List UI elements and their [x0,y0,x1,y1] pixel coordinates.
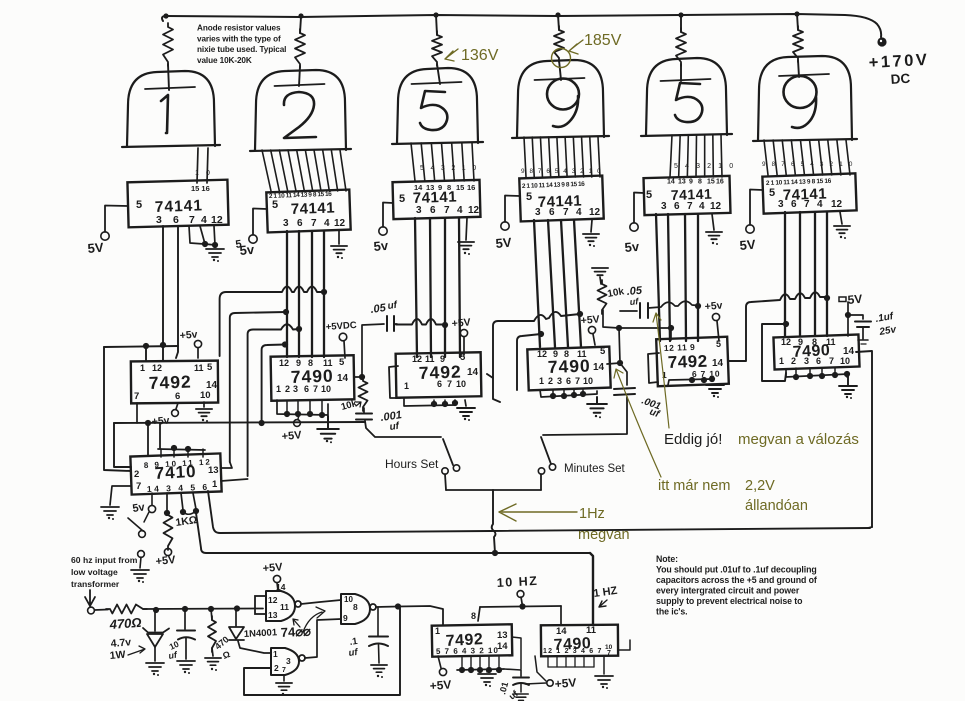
svg-text:11: 11 [280,602,289,612]
wire V3 cathode pins [411,143,415,181]
svg-text:supply to prevent electrical n: supply to prevent electrical noise to [656,596,803,606]
svg-text:4: 4 [201,214,207,226]
svg-text:megvan: megvan [578,527,630,543]
switch S2 Minutes Set [543,397,627,435]
svg-text:Minutes Set: Minutes Set [564,463,626,475]
svg-text:every intergrated circuit and: every intergrated circuit and power [656,586,800,596]
counter C3 7492 [396,352,482,397]
node +5VDC C2 [344,341,345,358]
svg-text:14: 14 [593,362,605,373]
ground C6 bottom [786,370,848,377]
resistor 1K ohm [166,493,168,512]
node +5V C4 [593,334,595,345]
svg-text:5: 5 [207,362,213,373]
wire nest C1-C2 step 4 [262,345,285,424]
svg-text:+5V: +5V [451,316,471,330]
wire C5 left bracket [648,353,659,383]
svg-text:8: 8 [471,611,476,621]
node 5V C6 [839,297,846,302]
svg-text:1: 1 [404,381,409,391]
capacitor .001uf minutes [620,363,627,385]
svg-text:1Hz: 1Hz [579,506,605,522]
wire 10hz bus [480,606,561,607]
wire C7 C8 bottom stubs [547,657,549,667]
svg-text:5: 5 [646,189,652,201]
wire to C5 pin1 [619,328,671,340]
svg-text:14: 14 [712,358,724,369]
svg-text:2: 2 [791,356,796,366]
wire 7410 top bus [158,449,205,450]
svg-text:3: 3 [416,205,422,216]
wire C1 pin7 stub [136,403,138,423]
svg-text:1: 1 [212,479,218,490]
wire G3 output [376,606,398,609]
svg-text:6: 6 [566,376,571,386]
svg-text:Note:: Note: [656,554,678,564]
svg-text:+5v: +5v [179,328,198,342]
wire nest C5-C6 hop [728,292,827,361]
svg-text:7: 7 [444,205,450,216]
svg-text:13: 13 [268,610,278,620]
wire nest C1-C2 step 3 [248,324,299,476]
svg-text:6: 6 [791,199,797,210]
counter C7 7492 [432,624,513,656]
counter C8 7490 [541,625,618,657]
svg-text:6: 6 [549,207,555,218]
terminal +170V DC [877,37,886,46]
svg-text:3: 3 [535,207,541,218]
wire G2 output to G3 [305,619,341,658]
wire C4 nest bottom [493,378,500,402]
svg-text:5V: 5V [495,235,512,251]
wire 10k down to junction [603,310,619,328]
svg-text:6: 6 [437,379,442,389]
resistor R2 anode [295,29,305,68]
svg-text:5V: 5V [739,237,756,253]
wire bundle U5 to C5 [656,214,660,341]
svg-text:15: 15 [456,183,464,192]
svg-text:3: 3 [778,199,784,210]
svg-text:12: 12 [268,595,278,605]
svg-text:8: 8 [353,602,358,612]
counter U7 7410 [130,453,221,494]
svg-text:14: 14 [467,367,479,378]
svg-text:15 16: 15 16 [191,184,210,193]
capacitor .01uf bottom [504,669,521,676]
svg-text:12: 12 [468,205,480,216]
svg-text:9: 9 [798,337,803,347]
svg-text:5v: 5v [373,238,389,254]
capacitor .1uf output [377,607,379,636]
diode D1 zener 4.7v [154,610,156,631]
svg-text:2: 2 [134,469,139,480]
wire 1Hz to 7490 pin11 [590,553,593,625]
svg-text:7: 7 [563,207,569,218]
wire C7 bottom bus [457,669,504,670]
node +5V C8 [547,680,553,686]
svg-text:12: 12 [211,214,223,226]
svg-text:8: 8 [698,179,702,186]
svg-text:13: 13 [678,179,686,186]
wire C2 pin14 up to cap [362,324,384,377]
svg-text:10 HZ: 10 HZ [496,574,538,590]
svg-text:8: 8 [447,183,451,192]
svg-text:16: 16 [716,179,724,186]
svg-text:7: 7 [607,650,611,657]
wire horizontal y423 [114,422,365,423]
svg-text:3: 3 [156,214,162,226]
gate G3 7400 nand [341,594,370,624]
wire 1Hz drop [492,490,496,553]
svg-text:állandóan: állandóan [745,498,808,514]
svg-text:+5V: +5V [580,313,600,327]
svg-text:7: 7 [829,356,834,366]
wire bundle U2 to C2 [286,231,288,357]
svg-text:3: 3 [286,656,291,666]
driver U5 74141 [644,176,731,215]
digit 5 in V3 [420,91,447,130]
svg-text:10: 10 [840,356,850,366]
nixie tube V5 [646,58,727,135]
svg-text:12 11 9: 12 11 9 [664,342,696,353]
svg-text:7: 7 [575,376,580,386]
wire nest C1-C2 step 1 [220,287,324,357]
node 5V supply for U3 [383,203,393,228]
svg-text:7492: 7492 [148,372,192,393]
svg-text:9: 9 [438,183,442,192]
gate G2 7400 nand [271,648,299,675]
capacitor .05uf second [639,303,641,318]
wire R6 to tube V6 [798,60,799,77]
node C4 pin14 junction [607,363,620,364]
svg-text:1: 1 [273,649,278,659]
svg-text:0: 0 [206,170,210,177]
svg-text:5: 5 [399,193,405,205]
svg-text:3: 3 [283,218,289,229]
svg-text:1: 1 [539,376,544,386]
wire 7410 bus stub up [159,423,161,448]
driver U4 74141 [519,176,603,222]
counter C1 7492 [131,361,218,404]
wire V5 cathode pins [670,135,672,177]
ground U4 [591,220,592,232]
resistor R6 anode [793,26,803,62]
svg-text:capacitors across the +5 and g: capacitors across the +5 and ground of [656,575,817,585]
svg-text:7: 7 [311,218,317,229]
node +5V C3 [463,337,465,355]
ground U1 [189,226,204,244]
wire feedback loop [244,608,400,695]
svg-text:+5v: +5v [704,299,723,313]
wire nest C1-C2 step 2 [230,312,286,462]
svg-text:5V: 5V [87,240,104,256]
svg-text:7: 7 [687,201,693,212]
svg-text:3: 3 [293,384,298,394]
svg-text:4: 4 [699,201,705,212]
node input terminal [88,607,95,614]
svg-text:13: 13 [208,465,219,476]
svg-text:You should put .01uf to .1uf d: You should put .01uf to .1uf decoupling [656,565,817,575]
svg-text:11: 11 [323,358,333,368]
svg-text:11: 11 [194,363,204,373]
svg-text:5 7 6 4 3 2 10: 5 7 6 4 3 2 10 [436,646,499,656]
digit 9 in V6 [784,76,817,108]
svg-text:5: 5 [716,339,721,349]
svg-text:9 8 7 6 5 4 3 2 1 0: 9 8 7 6 5 4 3 2 1 0 [762,161,855,168]
svg-text:nixie tube used. Typical: nixie tube used. Typical [197,45,286,54]
svg-text:+5VDC: +5VDC [325,320,357,333]
digit 9 in V4 [547,79,579,110]
wire C1 top rail [104,346,178,347]
svg-text:1: 1 [435,626,440,636]
svg-text:6: 6 [430,205,436,216]
svg-text:11: 11 [586,625,597,636]
wire V6 cathode pins [764,140,768,175]
svg-text:470Ω: 470Ω [108,615,142,632]
wire main 60hz bus [143,608,263,611]
svg-text:4: 4 [324,218,330,229]
svg-text:+5V: +5V [262,561,284,575]
ground C4 bottom [540,390,597,397]
counter C6 7490 [773,335,859,370]
svg-text:11: 11 [577,349,587,359]
svg-text:5 4 3 2 1 0: 5 4 3 2 1 0 [674,163,736,170]
svg-text:6: 6 [674,201,680,212]
node +5V C1 [197,348,199,358]
svg-text:12: 12 [412,354,422,364]
wire G2 input1 [238,641,271,653]
svg-text:9: 9 [553,349,558,359]
svg-text:7: 7 [804,199,810,210]
svg-text:+5V: +5V [281,429,303,443]
wire R3 to tube V3 [437,64,440,84]
svg-text:+5V: +5V [429,678,452,693]
ground U5 [712,214,714,230]
wire bundle U3 to C3 [415,218,417,357]
svg-text:3: 3 [804,356,809,366]
node +5V C7 [438,656,441,668]
svg-text:5V: 5V [847,292,863,307]
svg-text:the ic's.: the ic's. [656,607,688,617]
digit 2 in V2 [284,92,316,138]
svg-text:megvan a válozás: megvan a válozás [738,431,859,448]
wire G1 out to G3 in [301,600,341,604]
node 5V supply for U6 [750,190,763,226]
wire R2 to tube V2 [299,66,300,86]
resistor R1 anode [163,23,173,66]
wire line B lower [196,513,590,553]
switch S3 to ground [144,512,149,522]
svg-text:9: 9 [296,358,301,368]
svg-text:value 10K-20K: value 10K-20K [197,56,252,65]
resistor R3 anode [432,31,442,66]
svg-text:12: 12 [537,349,547,359]
svg-text:12: 12 [781,337,791,347]
capacitor .001uf hours [356,413,372,415]
wire C6 pin14 to right bus [856,351,872,527]
svg-text:136V: 136V [461,47,499,64]
resistor R4 anode [554,26,564,62]
svg-text:2: 2 [274,663,279,673]
wire bundle U4 to C4 [534,220,540,347]
svg-text:4: 4 [576,207,582,218]
svg-text:3: 3 [661,201,667,212]
svg-text:6: 6 [816,356,821,366]
svg-text:7: 7 [189,214,195,226]
svg-text:5 4 3 2 1 0: 5 4 3 2 1 0 [420,165,478,172]
svg-text:1N4001: 1N4001 [244,627,279,640]
svg-text:8: 8 [564,349,569,359]
svg-text:Anode resistor values: Anode resistor values [197,24,281,33]
wire V4 cathode pins [524,137,526,177]
ground U6 [840,212,842,224]
svg-text:11: 11 [826,337,836,347]
node rail junction dots [163,13,168,18]
svg-text:12: 12 [152,363,162,373]
svg-text:+5V: +5V [554,676,577,691]
svg-text:10: 10 [321,384,331,394]
svg-text:13: 13 [497,630,508,641]
ground U3 [466,218,467,240]
svg-text:9: 9 [689,179,693,186]
svg-text:5: 5 [136,199,142,211]
svg-text:1: 1 [140,363,145,373]
wire bundle U6 to C6 [784,212,786,336]
arrow Eddig jo to cap [653,313,669,428]
node 5V supply for U4 [505,196,520,223]
svg-text:10: 10 [456,379,466,389]
svg-text:5: 5 [460,352,466,363]
svg-text:2,2V: 2,2V [745,478,775,494]
svg-text:+170V: +170V [868,51,930,72]
wire switch common bus [446,489,541,491]
svg-text:185V: 185V [584,32,622,49]
svg-text:74141: 74141 [291,199,336,218]
svg-text:14: 14 [414,183,423,192]
ground C7 [486,670,488,672]
svg-text:transformer: transformer [71,579,120,589]
node 5V supply for U2 [253,209,267,236]
svg-text:14: 14 [556,626,567,637]
svg-text:13: 13 [426,183,434,192]
resistor 470 ohm input [95,609,109,612]
svg-text:Hours Set: Hours Set [385,457,439,471]
driver U1 74141 [127,180,228,228]
ground C3 bottom [404,399,455,406]
svg-text:7: 7 [282,667,286,674]
capacitor 10uf [184,609,186,629]
svg-text:16: 16 [467,183,475,192]
svg-text:4: 4 [457,205,463,216]
wire bundle U1 to C1 [162,226,164,343]
svg-text:14: 14 [667,179,675,186]
svg-text:.05: .05 [370,302,388,316]
wire R1 to tube V1 [168,64,169,90]
svg-text:6: 6 [173,214,179,226]
capacitor .05uf first [386,316,388,331]
svg-text:5: 5 [339,357,345,368]
svg-text:10: 10 [583,376,593,386]
wire +170V anode supply rail [162,14,881,37]
svg-text:5v: 5v [624,239,640,255]
driver U2 74141 [266,190,350,233]
resistor R5 anode [676,28,686,66]
svg-text:12: 12 [831,199,843,210]
svg-text:11: 11 [425,354,435,364]
svg-text:12: 12 [334,218,346,229]
wire nest C3-C4 step 2 [517,334,541,390]
svg-text:4.7v: 4.7v [110,636,132,650]
wire nest C5-C6 step 2 [762,324,786,381]
svg-text:7: 7 [447,379,452,389]
arrow 60hz input [85,590,95,606]
node C1 pin6 +5v [176,403,178,409]
svg-text:1: 1 [779,356,784,366]
wire C8 right stub [618,640,630,650]
nixie tube V6 [758,56,852,140]
svg-text:4: 4 [817,199,823,210]
wire 7410 right pin1 [221,479,248,481]
wire C2 pin +5v bottom [298,415,299,419]
svg-text:DC: DC [890,71,911,87]
svg-text:60 hz input from: 60 hz input from [71,555,138,565]
ground U2 [338,231,340,244]
nixie tube V3 [397,68,478,143]
wire hop C2cap to C3 [396,319,445,325]
ground C5 bottom [668,379,713,385]
svg-text:74⌀⌀: 74⌀⌀ [280,623,311,640]
svg-text:1W: 1W [109,649,126,662]
svg-text:8: 8 [812,337,817,347]
wire nest C3-C4 step 1 [487,312,580,378]
svg-text:2: 2 [548,376,553,386]
ground above 10k C4 [592,267,608,269]
svg-text:1: 1 [195,170,199,177]
svg-text:12 1 2 3 4 6 7: 12 1 2 3 4 6 7 [543,648,603,655]
capacitor .1uf 25v [848,315,863,319]
diode D2 1N4001 [235,609,237,627]
counter C2 7490 [271,355,355,400]
svg-text:itt már nem: itt már nem [658,478,731,494]
svg-text:74141: 74141 [155,197,204,216]
svg-text:5: 5 [600,346,606,357]
svg-text:6 7 10: 6 7 10 [692,369,721,379]
svg-text:6: 6 [297,218,303,229]
switch S1 Hours Set [365,421,441,437]
wire V1 cathode pins [197,148,198,183]
svg-text:1: 1 [276,384,281,394]
wire line A to right bus [208,491,870,533]
nixie tube V2 [255,70,346,150]
wire right bus corner [868,527,872,528]
resistor 470 second [211,609,212,620]
svg-text:7: 7 [313,384,318,394]
ground C2 bottom [277,400,328,415]
svg-text:Eddig jó!: Eddig jó! [664,431,722,448]
svg-text:9 8 7 6 5 4 3 2 1 0: 9 8 7 6 5 4 3 2 1 0 [521,168,602,175]
ground C1 pin10 [203,402,205,407]
svg-text:7: 7 [136,481,141,492]
ground C8 [603,656,605,674]
digit 1 in V1 [161,95,168,133]
digit 5 in V5 [675,83,702,122]
wire 7410 right pin13 [221,462,232,468]
svg-text:12: 12 [710,201,722,212]
node C2 pin14 junction [354,376,362,378]
svg-text:15: 15 [707,179,715,186]
node 5V 7410 pin14 [151,493,153,505]
wire C3 left bracket [389,366,400,398]
